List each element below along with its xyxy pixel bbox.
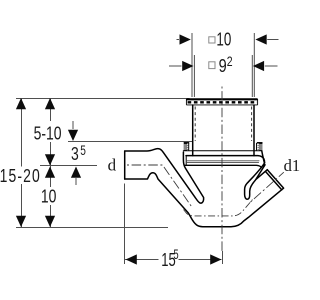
svg-text:15-20: 15-20 — [0, 166, 41, 186]
svg-text:d: d — [108, 156, 117, 175]
svg-text:d1: d1 — [284, 156, 300, 175]
svg-text:2: 2 — [227, 54, 233, 70]
svg-text:10: 10 — [41, 187, 57, 207]
svg-text:10: 10 — [216, 30, 231, 51]
svg-text:5: 5 — [80, 142, 86, 158]
svg-text:3: 3 — [71, 144, 79, 164]
svg-text:9: 9 — [219, 55, 227, 76]
svg-text:5-10: 5-10 — [34, 123, 62, 143]
svg-text:5: 5 — [173, 247, 178, 262]
